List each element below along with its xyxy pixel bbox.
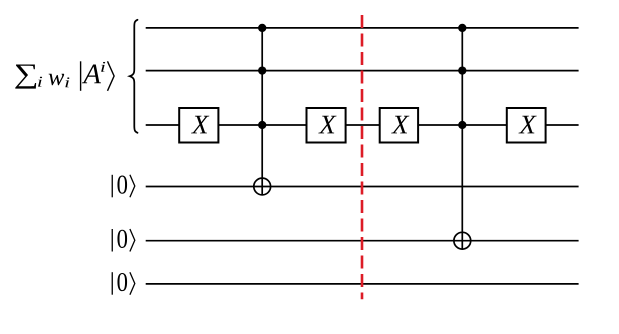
CNOT target oplus on q4 — [254, 178, 271, 195]
ket |0> label wire q6 — [112, 272, 135, 295]
control dot column 1 on q3 — [258, 121, 266, 129]
control dot column 1 on q2 — [258, 66, 266, 74]
CNOT target oplus on q5 — [454, 232, 471, 249]
X gate 3 on q3 — [380, 108, 418, 143]
control dot column 1 on q1 — [258, 24, 266, 32]
control dot column 2 on q2 — [458, 66, 466, 74]
red dashed barrier line — [361, 15, 364, 299]
control vertical line column 1 (controls to oplus on q4) — [261, 28, 263, 195]
X gate 1 on q3 — [179, 108, 218, 143]
X gate 4 on q3 — [507, 108, 546, 143]
control vertical line column 2 (controls to oplus on q5) — [461, 28, 463, 249]
wire q4 — [146, 186, 579, 188]
wire q2 — [146, 70, 579, 72]
wire q6 (bottom) — [146, 283, 579, 285]
wire q1 (top) — [146, 27, 579, 29]
control dot column 2 on q1 — [458, 24, 466, 32]
wire q5 — [146, 240, 579, 242]
control dot column 2 on q3 — [458, 121, 466, 129]
input label sum_i w_i |A^i> for top three wires — [15, 61, 114, 91]
ket |0> label wire q5 — [112, 229, 135, 252]
ket |0> label wire q4 — [112, 175, 135, 198]
X gate 2 on q3 — [307, 108, 346, 143]
brace grouping top three wires — [130, 20, 138, 133]
wire q3 — [146, 124, 579, 126]
